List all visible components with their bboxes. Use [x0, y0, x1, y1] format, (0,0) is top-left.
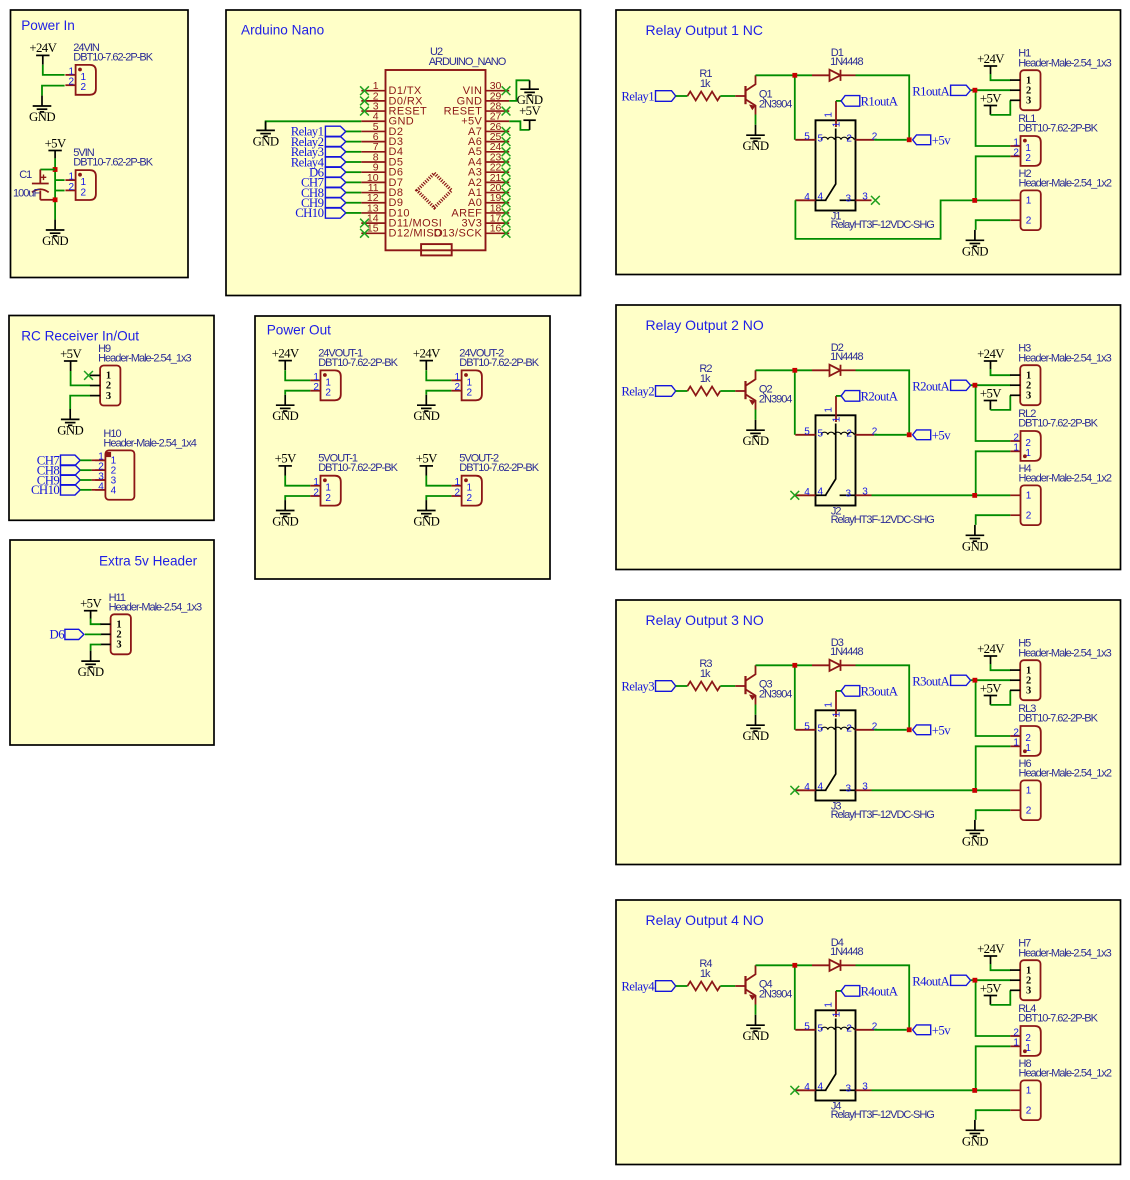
wire — [80, 479, 91, 481]
net label +5v — [913, 134, 952, 148]
svg-text:RelayHT3F-12VDC-SHG: RelayHT3F-12VDC-SHG — [831, 1109, 935, 1121]
svg-text:2: 2 — [846, 724, 852, 735]
wire — [509, 80, 529, 101]
svg-text:1N4448: 1N4448 — [830, 56, 863, 68]
U2 pin 21 A2 — [468, 172, 509, 189]
wire — [70, 361, 72, 371]
U2 pin 18 AREF — [451, 202, 509, 219]
junction — [973, 383, 978, 388]
wire — [976, 156, 1011, 200]
wire — [92, 459, 106, 461]
ground — [46, 220, 65, 236]
svg-text:2: 2 — [846, 1024, 852, 1035]
svg-text:1: 1 — [831, 711, 842, 717]
wire — [976, 90, 1011, 146]
svg-text:4: 4 — [818, 487, 824, 498]
net label CH10 — [31, 483, 80, 497]
relay J4 RelayHT3F-12VDC-SHG — [795, 991, 874, 1101]
U2 pin 8 D5 — [361, 151, 403, 168]
wire — [346, 141, 362, 143]
net label R2outA (relay) — [841, 390, 899, 404]
svg-text:1: 1 — [823, 407, 834, 413]
wire — [756, 664, 795, 666]
svg-text:2: 2 — [846, 134, 852, 145]
wire — [92, 469, 106, 471]
wire — [40, 169, 55, 171]
J3 pin numbers — [804, 702, 878, 795]
wire — [70, 396, 90, 409]
wire — [284, 361, 286, 371]
svg-text:+5v: +5v — [932, 724, 951, 738]
wire — [55, 190, 65, 192]
resistor R3 — [688, 682, 721, 691]
wire — [284, 466, 286, 476]
wire — [990, 690, 1010, 705]
wire — [856, 965, 910, 1030]
connector 5VOUT-2 (DBT10-7.62-2P-BK) — [451, 476, 482, 506]
wire — [756, 369, 795, 371]
sheet Relay Output 4 NO — [616, 900, 1121, 1165]
svg-text:3: 3 — [862, 782, 868, 793]
capacitor C1 — [32, 170, 55, 200]
no-connect J2 pin 4 — [790, 491, 799, 500]
svg-text:4: 4 — [818, 192, 824, 203]
svg-text:1: 1 — [823, 1002, 834, 1008]
svg-text:1: 1 — [1013, 443, 1019, 454]
resistor R1 — [688, 92, 721, 101]
wire — [426, 391, 451, 395]
wire — [92, 489, 106, 491]
ground — [746, 420, 765, 436]
wire — [795, 369, 812, 371]
svg-text:DBT10-7.62-2P-BK: DBT10-7.62-2P-BK — [459, 462, 539, 474]
end Relay Output 3 NO — [0, 0, 1, 1]
svg-text:3: 3 — [862, 1082, 868, 1093]
wire — [92, 479, 106, 481]
svg-text:1k: 1k — [700, 373, 711, 385]
junction — [972, 1088, 977, 1093]
power +5V — [984, 995, 997, 997]
U2 pin 24 A5 — [468, 141, 509, 158]
svg-text:1N4448: 1N4448 — [830, 646, 863, 658]
ground — [33, 96, 52, 112]
diode D4 1N4448 — [812, 960, 856, 971]
no-connect pin 28 — [502, 107, 511, 116]
svg-text:2: 2 — [68, 182, 74, 193]
wire — [346, 192, 362, 194]
svg-text:+5V: +5V — [980, 681, 1002, 695]
U2 pin 27 +5V — [461, 111, 509, 128]
svg-text:Header-Male-2.54_1x2: Header-Male-2.54_1x2 — [1019, 178, 1112, 190]
svg-text:+5V: +5V — [519, 104, 541, 118]
ground — [81, 651, 100, 667]
U2 pin 23 A4 — [468, 151, 509, 168]
wire — [856, 665, 910, 730]
svg-text:+24V: +24V — [29, 41, 57, 55]
no-connect pin 17 — [502, 219, 511, 228]
no-connect pin 26 — [502, 127, 511, 136]
svg-text:2: 2 — [313, 382, 319, 393]
wire — [872, 789, 1011, 791]
svg-text:4: 4 — [98, 481, 104, 492]
svg-text:1: 1 — [1026, 196, 1032, 207]
svg-text:16: 16 — [490, 223, 502, 235]
sheet Relay Output 2 NO — [616, 305, 1121, 570]
svg-text:R4outA: R4outA — [912, 975, 950, 989]
ground — [746, 125, 765, 141]
wire — [346, 161, 362, 163]
junction — [907, 137, 912, 142]
svg-text:2: 2 — [846, 429, 852, 440]
svg-text:+24V: +24V — [413, 346, 441, 360]
net label R3outA (output) — [912, 675, 970, 689]
connector H11 (Header-Male-2.54_1x3) — [100, 614, 130, 654]
svg-text:Header-Male-2.54_1x3: Header-Male-2.54_1x3 — [1018, 57, 1111, 69]
svg-text:Header-Male-2.54_1x3: Header-Male-2.54_1x3 — [1018, 947, 1111, 959]
svg-text:1: 1 — [1026, 786, 1032, 797]
ground — [417, 500, 436, 516]
wire — [80, 459, 91, 461]
power +24V — [984, 65, 997, 67]
svg-text:2: 2 — [1013, 148, 1019, 159]
wire — [971, 384, 1011, 386]
IC U2 ARDUINO_NANO body — [386, 70, 486, 250]
net label R1outA (relay) — [841, 95, 899, 109]
no-connect J3 pin 4 — [790, 786, 799, 795]
wire — [285, 496, 310, 500]
svg-text:3: 3 — [862, 192, 868, 203]
svg-text:+5v: +5v — [932, 1024, 951, 1038]
wire — [991, 369, 1011, 375]
wire — [720, 685, 735, 687]
svg-text:2: 2 — [1025, 153, 1031, 164]
svg-text:R2outA: R2outA — [912, 380, 950, 394]
net label +5v — [913, 1024, 952, 1038]
J1 pin numbers — [804, 112, 878, 205]
wire — [990, 66, 992, 74]
H10 polarity mark — [106, 452, 111, 457]
sheet Power Out — [255, 316, 550, 579]
power +24V — [984, 360, 997, 362]
junction — [53, 167, 58, 172]
svg-text:1: 1 — [1013, 738, 1019, 749]
connector RL1 (DBT10-7.62-2P-BK) — [1010, 136, 1041, 166]
transistor Q2 2N3904 — [735, 370, 755, 409]
svg-text:5: 5 — [804, 722, 810, 733]
svg-text:Header-Male-2.54_1x3: Header-Male-2.54_1x3 — [109, 602, 202, 614]
transistor Q1 2N3904 — [735, 75, 755, 114]
wire — [989, 106, 991, 115]
wire — [42, 55, 44, 64]
U2 pin 2 D0/RX — [361, 90, 423, 107]
net label Relay2 — [621, 384, 675, 398]
net label R4outA (relay) — [841, 985, 899, 999]
net label CH9 — [37, 473, 80, 487]
svg-text:RC Receiver In/Out: RC Receiver In/Out — [21, 329, 139, 344]
svg-text:+5V: +5V — [60, 347, 82, 361]
wire — [43, 65, 65, 75]
svg-text:2: 2 — [454, 382, 460, 393]
wire — [795, 200, 1010, 239]
svg-text:3: 3 — [846, 194, 852, 205]
wire — [795, 74, 812, 76]
svg-text:1N4448: 1N4448 — [830, 351, 863, 363]
svg-text:1k: 1k — [700, 78, 711, 90]
wire — [971, 979, 1011, 981]
connector H5 (Header-Male-2.54_1x3) — [1010, 660, 1041, 700]
svg-text:4: 4 — [818, 1082, 824, 1093]
U2 pin 20 A1 — [468, 182, 509, 199]
power +5V — [984, 105, 997, 107]
junction — [973, 978, 978, 983]
svg-text:R4outA: R4outA — [861, 985, 899, 999]
svg-text:GND: GND — [413, 409, 439, 423]
resistor R4 — [688, 982, 721, 991]
wire — [90, 611, 92, 619]
svg-text:+24V: +24V — [977, 347, 1005, 361]
svg-text:2: 2 — [872, 427, 878, 438]
net label D6 — [50, 628, 84, 642]
no-connect pin 2 — [360, 96, 369, 105]
svg-text:5: 5 — [804, 1022, 810, 1033]
U2 pin 13 D10 — [361, 202, 410, 219]
wire — [676, 95, 688, 97]
svg-text:2: 2 — [325, 493, 331, 504]
connector H2 (Header-Male-2.54_1x2) — [1010, 190, 1041, 230]
power +5V — [984, 400, 997, 402]
svg-text:1: 1 — [1026, 1086, 1032, 1097]
svg-text:3: 3 — [846, 489, 852, 500]
wire — [85, 633, 101, 635]
power +5V — [64, 360, 77, 362]
svg-text:GND: GND — [743, 729, 769, 743]
U2 pin 6 D3 — [361, 131, 403, 148]
no-connect H9 pin 1 — [84, 371, 93, 380]
junction — [973, 678, 978, 683]
wire — [971, 89, 1011, 91]
svg-text:1k: 1k — [700, 668, 711, 680]
svg-text:DBT10-7.62-2P-BK: DBT10-7.62-2P-BK — [73, 157, 153, 169]
svg-text:+5V: +5V — [45, 136, 67, 150]
svg-text:2N3904: 2N3904 — [759, 394, 792, 406]
U2 pin 7 D4 — [361, 141, 403, 158]
wire — [676, 390, 688, 392]
connector RL2 (DBT10-7.62-2P-BK) — [1010, 431, 1041, 461]
svg-text:3: 3 — [1026, 391, 1031, 402]
svg-text:2: 2 — [1026, 511, 1032, 522]
svg-text:5: 5 — [818, 1024, 824, 1035]
no-connect pin 22 — [502, 168, 511, 177]
end Relay Output 4 NO — [0, 0, 1, 1]
wire — [795, 964, 812, 966]
U2 pin 28 RESET — [444, 100, 510, 117]
U2 USB connector — [421, 244, 452, 255]
connector H6 (Header-Male-2.54_1x2) — [1010, 780, 1041, 820]
ground — [966, 820, 985, 836]
U2 pin 4 GND — [361, 111, 414, 128]
junction — [972, 493, 977, 498]
junction — [792, 963, 797, 968]
net label Relay3 — [621, 679, 675, 693]
wire — [509, 121, 529, 130]
power +5V — [984, 695, 997, 697]
svg-text:GND: GND — [253, 134, 279, 148]
svg-text:DBT10-7.62-2P-BK: DBT10-7.62-2P-BK — [1018, 417, 1098, 429]
net label +5v — [913, 429, 952, 443]
svg-text:2: 2 — [872, 722, 878, 733]
svg-text:Relay3: Relay3 — [621, 679, 654, 693]
no-connect J4 pin 4 — [790, 1086, 799, 1095]
svg-text:4: 4 — [111, 485, 117, 496]
wire — [976, 1110, 1011, 1120]
svg-text:DBT10-7.62-2P-BK: DBT10-7.62-2P-BK — [1018, 712, 1098, 724]
no-connect pin 21 — [502, 178, 511, 187]
end Extra 5v Header — [0, 0, 1, 1]
U2 pin 9 D6 — [361, 162, 403, 179]
junction — [792, 663, 797, 668]
net label CH7 — [37, 454, 80, 468]
svg-text:3: 3 — [1026, 686, 1031, 697]
wire — [989, 996, 991, 1005]
sheet Relay Output 3 NO — [616, 600, 1121, 865]
wire — [755, 705, 757, 715]
svg-text:2: 2 — [872, 1022, 878, 1033]
wire — [71, 371, 90, 385]
svg-text:RelayHT3F-12VDC-SHG: RelayHT3F-12VDC-SHG — [831, 809, 935, 821]
svg-text:Relay4: Relay4 — [621, 979, 655, 993]
wire — [285, 476, 310, 486]
svg-text:+24V: +24V — [272, 346, 300, 360]
svg-text:5: 5 — [804, 427, 810, 438]
wire — [856, 370, 910, 435]
U2 pin 14 D11/MOSI — [361, 213, 442, 230]
no-connect pin 20 — [502, 188, 511, 197]
wire — [285, 391, 310, 395]
svg-text:GND: GND — [962, 244, 988, 258]
svg-text:GND: GND — [42, 234, 68, 248]
svg-text:Header-Male-2.54_1x3: Header-Male-2.54_1x3 — [1018, 647, 1111, 659]
ground — [276, 395, 295, 411]
svg-text:2: 2 — [313, 487, 319, 498]
wire — [872, 1089, 1011, 1091]
wire — [795, 664, 812, 666]
wire — [991, 74, 1011, 80]
svg-text:DBT10-7.62-2P-BK: DBT10-7.62-2P-BK — [459, 357, 539, 369]
U2 pin 26 A7 — [468, 121, 509, 138]
svg-text:5: 5 — [804, 132, 810, 143]
no-connect pin 25 — [502, 137, 511, 146]
svg-text:Relay Output 4 NO: Relay Output 4 NO — [646, 912, 764, 928]
svg-text:4: 4 — [804, 192, 810, 203]
svg-text:2: 2 — [68, 77, 74, 88]
svg-text:1: 1 — [1026, 491, 1032, 502]
net label CH9 — [301, 196, 346, 210]
wire — [990, 361, 992, 369]
wire — [80, 489, 91, 491]
no-connect pin 1 — [360, 86, 369, 95]
wire — [874, 1029, 907, 1031]
wire — [720, 985, 735, 987]
junction — [972, 198, 977, 203]
ground — [746, 1015, 765, 1031]
ground — [520, 80, 539, 95]
wire — [971, 679, 1011, 681]
svg-text:3: 3 — [1026, 96, 1031, 107]
svg-text:GND: GND — [743, 139, 769, 153]
wire — [856, 75, 910, 140]
net label R4outA (output) — [912, 975, 970, 989]
sheet Arduino Nano — [226, 10, 581, 296]
svg-text:CH10: CH10 — [31, 483, 59, 497]
wire — [836, 395, 841, 397]
end Power Out — [0, 0, 1, 1]
wire — [976, 451, 1011, 495]
svg-text:R1outA: R1outA — [861, 95, 899, 109]
svg-text:+5V: +5V — [416, 452, 438, 466]
wire — [54, 158, 56, 219]
svg-text:GND: GND — [272, 409, 298, 423]
svg-text:Header-Male-2.54_1x2: Header-Male-2.54_1x2 — [1019, 473, 1112, 485]
wire — [991, 964, 1011, 970]
wire — [755, 1005, 757, 1015]
end RC Receiver — [0, 0, 1, 1]
connector 5VOUT-1 (DBT10-7.62-2P-BK) — [310, 476, 341, 506]
wire — [990, 100, 1010, 115]
U2 pin 1 D1/TX — [361, 80, 422, 97]
wire — [756, 74, 795, 76]
svg-text:D13/SCK: D13/SCK — [434, 228, 483, 240]
svg-text:GND: GND — [962, 834, 988, 848]
svg-text:Header-Male-2.54_1x3: Header-Male-2.54_1x3 — [1018, 352, 1111, 364]
wire — [976, 680, 1011, 736]
U2 pin 30 VIN — [463, 80, 509, 97]
U2 pin 10 D7 — [361, 172, 403, 189]
ground — [276, 500, 295, 516]
wire — [755, 410, 757, 420]
svg-text:Relay Output 1 NC: Relay Output 1 NC — [646, 22, 764, 38]
svg-text:DBT10-7.62-2P-BK: DBT10-7.62-2P-BK — [1018, 122, 1098, 134]
svg-text:1: 1 — [831, 416, 842, 422]
connector H8 (Header-Male-2.54_1x2) — [1010, 1080, 1041, 1120]
wire — [794, 370, 796, 435]
svg-text:1k: 1k — [700, 968, 711, 980]
svg-text:2: 2 — [454, 487, 460, 498]
no-connect pin 15 — [360, 229, 369, 238]
wire — [794, 965, 796, 1030]
net label Relay1 — [621, 89, 675, 103]
junction — [972, 788, 977, 793]
power +24V — [420, 360, 433, 362]
power +24V — [984, 655, 997, 657]
svg-text:3: 3 — [846, 784, 852, 795]
junction — [53, 197, 58, 202]
U2 pin 25 A6 — [468, 131, 509, 148]
svg-text:Header-Male-2.54_1x3: Header-Male-2.54_1x3 — [98, 353, 191, 365]
ground — [966, 525, 985, 541]
svg-text:1: 1 — [823, 702, 834, 708]
net label R1outA (output) — [912, 85, 970, 99]
wire — [54, 151, 56, 159]
svg-text:2: 2 — [467, 493, 473, 504]
svg-text:GND: GND — [962, 1134, 988, 1148]
wire — [976, 515, 1011, 525]
junction — [907, 1027, 912, 1032]
wire — [976, 385, 1011, 441]
wire — [346, 202, 362, 204]
svg-text:DBT10-7.62-2P-BK: DBT10-7.62-2P-BK — [1018, 1012, 1098, 1024]
power +5V — [48, 150, 61, 152]
H10 outside pin numbers — [98, 452, 104, 493]
